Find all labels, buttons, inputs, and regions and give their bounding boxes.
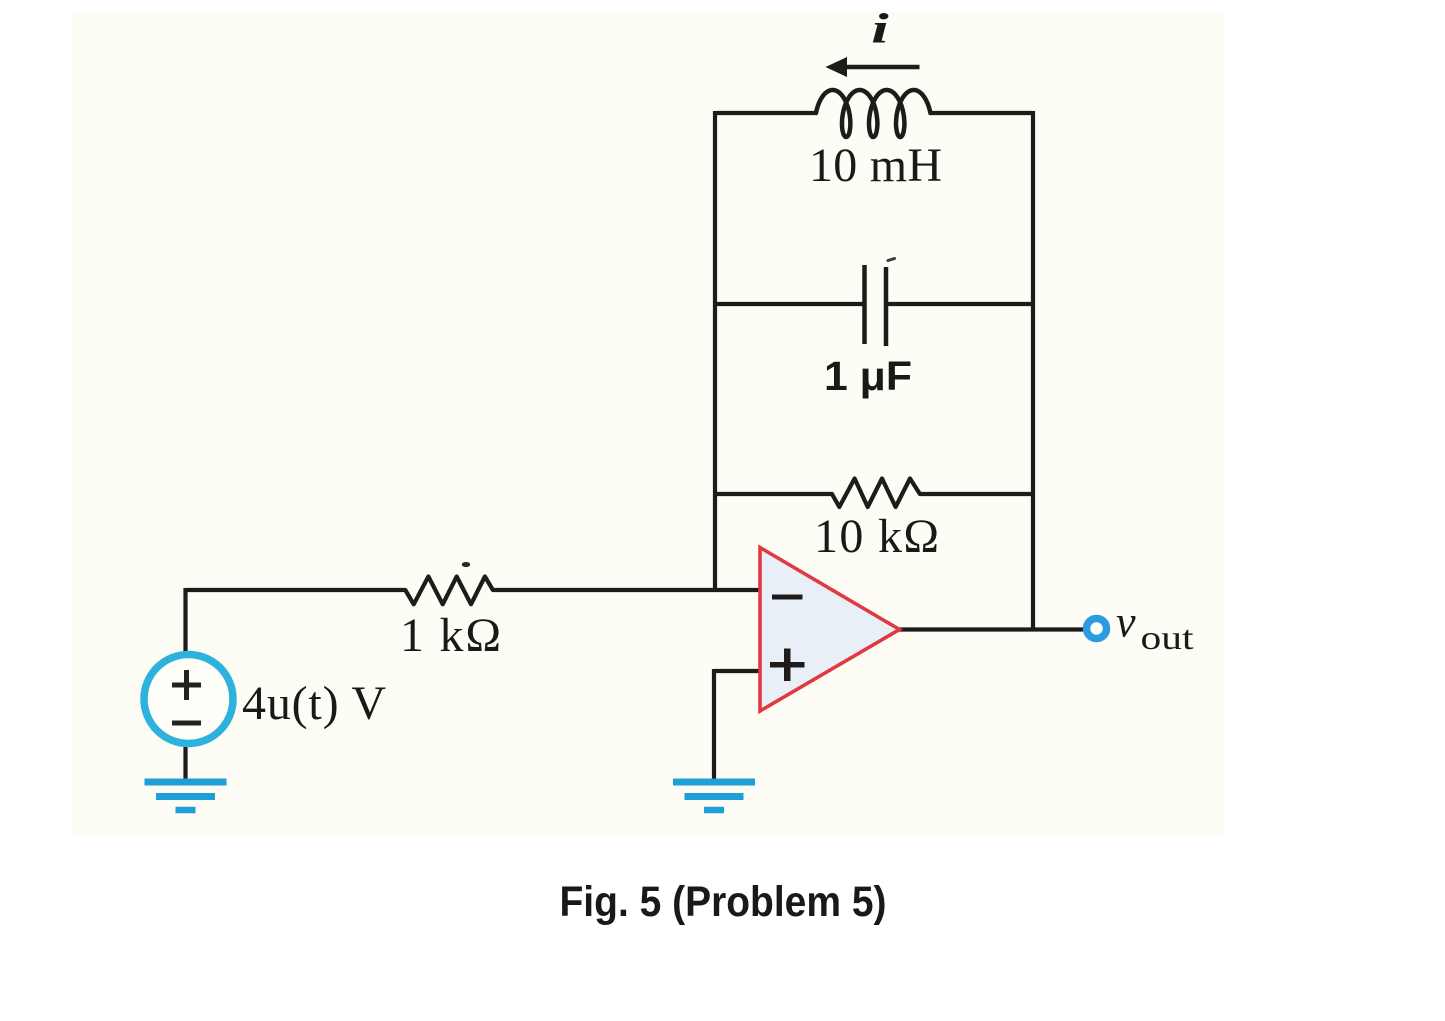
svg-text:out: out — [1141, 620, 1195, 657]
svg-text:Fig. 5 (Problem 5): Fig. 5 (Problem 5) — [560, 878, 887, 926]
svg-text:10 kΩ: 10 kΩ — [814, 510, 939, 563]
svg-text:v: v — [1116, 598, 1136, 647]
svg-text:i: i — [871, 5, 889, 52]
svg-text:1 μF: 1 μF — [824, 353, 912, 399]
svg-text:1 kΩ: 1 kΩ — [400, 609, 501, 662]
svg-text:10 mH: 10 mH — [809, 139, 942, 192]
svg-text:4u(t) V: 4u(t) V — [242, 677, 386, 730]
